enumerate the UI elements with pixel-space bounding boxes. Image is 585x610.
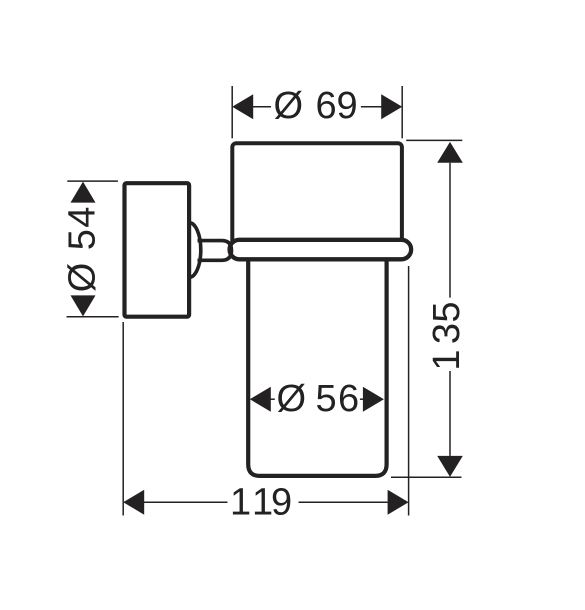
O54 bottom arrow — [71, 295, 96, 316]
O56 left arrow — [250, 387, 271, 412]
svg-text:Ø54: Ø54 — [62, 207, 104, 293]
dim 135 line segments — [449, 163, 451, 298]
dim O69 extension lines — [231, 86, 233, 138]
dim O54 extension lines — [67, 180, 118, 182]
dim 135 extension lines — [406, 139, 462, 141]
svg-text:135: 135 — [426, 301, 468, 370]
135 bottom arrow — [437, 456, 463, 477]
svg-text:Ø69: Ø69 — [274, 85, 358, 127]
dim O69 line segments — [253, 106, 272, 108]
135 top arrow — [437, 142, 463, 163]
cup body — [248, 256, 386, 476]
flange on plate — [189, 223, 200, 278]
119 left arrow — [123, 490, 144, 515]
dim O56 line segments — [270, 398, 275, 400]
arrowheads — [71, 94, 463, 514]
svg-text:Ø56: Ø56 — [277, 378, 360, 420]
O69 right arrow — [381, 94, 402, 119]
holder ring — [230, 240, 412, 259]
dim 119 line segments — [144, 501, 228, 503]
dim 119 extension lines — [122, 322, 124, 516]
O69 left arrow — [232, 94, 253, 119]
post / stem — [198, 241, 232, 261]
svg-text:119: 119 — [230, 482, 292, 524]
dimension graphics — [67, 86, 463, 516]
wall plate — [125, 183, 190, 317]
O54 top arrow — [71, 182, 96, 203]
O56 right arrow — [363, 387, 384, 412]
119 right arrow — [388, 490, 409, 515]
cup top section — [232, 143, 402, 248]
